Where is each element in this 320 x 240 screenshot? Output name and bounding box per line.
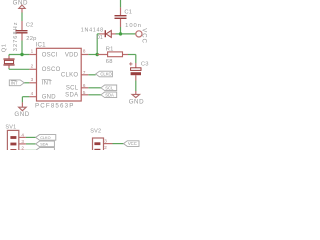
svg-text:SCL: SCL (105, 85, 114, 90)
svg-text:68: 68 (106, 59, 113, 65)
svg-text:100n: 100n (125, 23, 142, 29)
svg-text:4: 4 (21, 132, 24, 137)
svg-text:OSCO: OSCO (42, 67, 61, 73)
svg-text:IC1: IC1 (36, 41, 47, 48)
svg-text:CLKO: CLKO (61, 73, 79, 79)
svg-text:VCC: VCC (128, 141, 137, 146)
svg-text:C3: C3 (141, 62, 149, 68)
svg-text:6: 6 (83, 83, 86, 88)
svg-text:VCC: VCC (141, 28, 147, 44)
svg-text:3: 3 (21, 139, 24, 144)
svg-text:OSCI: OSCI (42, 52, 58, 58)
svg-text:GND: GND (129, 98, 144, 105)
svg-text:GND: GND (42, 95, 57, 101)
svg-text:2: 2 (31, 64, 34, 69)
svg-text:SDA: SDA (65, 93, 78, 99)
svg-text:PCF8563P: PCF8563P (35, 103, 74, 110)
svg-text:4: 4 (31, 91, 34, 96)
svg-text:C1: C1 (124, 10, 132, 16)
svg-text:SV2: SV2 (90, 129, 101, 135)
svg-text:1: 1 (31, 49, 34, 54)
svg-text:22p: 22p (26, 36, 36, 42)
svg-text:CLKO: CLKO (100, 72, 112, 77)
svg-text:D1: D1 (96, 35, 103, 41)
svg-text:5: 5 (83, 90, 86, 95)
svg-text:1N4148: 1N4148 (81, 27, 104, 33)
svg-text:C2: C2 (26, 22, 34, 28)
svg-text:R1: R1 (106, 47, 114, 53)
svg-text:7: 7 (83, 70, 86, 75)
svg-text:SCL: SCL (66, 86, 79, 92)
svg-text:GND: GND (14, 111, 29, 118)
svg-text:SV1: SV1 (5, 124, 16, 130)
svg-text:VDD: VDD (65, 52, 79, 58)
svg-text:32768Hz: 32768Hz (13, 21, 19, 51)
svg-text:INT: INT (11, 80, 18, 85)
svg-text:SDA: SDA (105, 92, 114, 97)
svg-text:CLKO: CLKO (40, 136, 50, 140)
svg-text:8: 8 (83, 49, 86, 54)
svg-text:GND: GND (13, 0, 28, 7)
svg-text:Q1: Q1 (1, 44, 7, 53)
svg-text:SDA: SDA (40, 143, 48, 147)
svg-text:3: 3 (104, 138, 107, 143)
svg-text:INT: INT (42, 81, 53, 87)
svg-text:2: 2 (104, 145, 107, 150)
svg-text:3: 3 (31, 77, 34, 82)
svg-text:2: 2 (21, 145, 24, 150)
